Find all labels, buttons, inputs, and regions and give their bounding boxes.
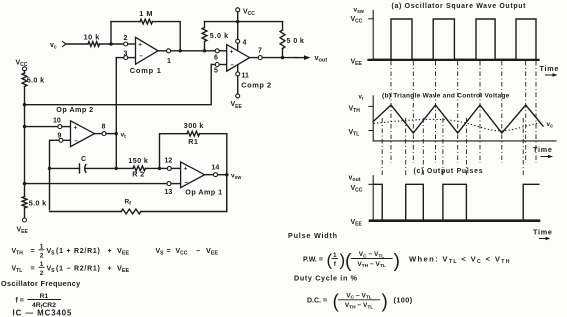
wire VCC top rail [205, 21, 283, 23]
plot b baseline [373, 140, 556, 142]
svg-text:6: 6 [214, 55, 218, 62]
pin 7 output Comp 2 [250, 57, 259, 59]
wire vc to R1ok [66, 43, 88, 45]
svg-text:5: 5 [214, 68, 218, 75]
waveform b triangle wave [373, 105, 543, 133]
svg-text:+: + [108, 248, 112, 255]
pin 9 [59, 138, 63, 142]
svg-text:10 k: 10 k [84, 33, 101, 42]
svg-text:9: 9 [58, 133, 62, 140]
wire junction up to 1M [110, 22, 112, 44]
node rail to pin10 [23, 125, 26, 128]
pin 1 output Comp 1 [158, 50, 167, 52]
svg-text:(: ( [345, 250, 352, 272]
power VEE terminal left rail [23, 218, 27, 222]
svg-text:Comp 2: Comp 2 [241, 81, 271, 90]
plot c y-axis [372, 176, 374, 221]
svg-text:Time: Time [533, 145, 553, 154]
node 1M feedback junction [179, 49, 182, 52]
svg-text:Time: Time [540, 64, 560, 73]
svg-text:1: 1 [333, 252, 337, 259]
svg-text:R1: R1 [40, 293, 49, 300]
plot a baseline [369, 59, 539, 61]
resistor 5.0k divider top [24, 71, 26, 73]
wire opamp1 out to vsw [218, 174, 227, 176]
node R1 bottom junction [158, 167, 161, 170]
svg-text:4: 4 [243, 40, 247, 47]
svg-text:=: = [31, 266, 35, 273]
wire C to R2 [85, 167, 133, 169]
svg-text:+: + [74, 125, 78, 132]
svg-text:300 k: 300 k [184, 121, 204, 130]
svg-text:f =: f = [16, 298, 24, 305]
svg-text:(1 + R2/R1): (1 + R2/R1) [56, 248, 101, 255]
waveform c output pulses [373, 184, 539, 220]
pin 5 [215, 63, 219, 67]
svg-text:Comp 1: Comp 1 [130, 66, 162, 75]
pin 8 output Op Amp 2 [95, 133, 102, 135]
wire Rf right vertical [226, 175, 228, 212]
wire rail to pin 10 [25, 126, 58, 128]
svg-text:12: 12 [165, 158, 173, 165]
wire 10k to pin2 [100, 43, 124, 45]
svg-text:5.0 k: 5.0 k [29, 199, 47, 208]
pin 11 [236, 72, 240, 76]
node vsw [225, 173, 228, 176]
svg-text:Pulse Width: Pulse Width [288, 231, 338, 240]
pin 3 [124, 56, 128, 60]
svg-text:2: 2 [40, 270, 44, 277]
svg-text:−: − [230, 62, 234, 69]
svg-text:R 2: R 2 [132, 170, 144, 179]
resistor 5.0k divider bottom [22, 197, 27, 209]
node C left junction [48, 167, 51, 170]
node C right junction [115, 167, 118, 170]
svg-text:2: 2 [40, 252, 44, 259]
svg-text:150 k: 150 k [128, 156, 148, 165]
wire R2 to pin12 [146, 167, 168, 169]
wire comp2 output line [262, 57, 296, 59]
node vc-pin2 junction [109, 42, 112, 45]
wire C left segment [50, 167, 80, 169]
pin 10 [58, 125, 62, 129]
svg-text:+: + [108, 266, 112, 273]
output arrow vout [296, 57, 308, 59]
node pullup junction [203, 49, 206, 52]
svg-text:−: − [184, 179, 188, 186]
svg-text:(c) Output Pulses: (c) Output Pulses [414, 168, 484, 175]
op-amp Op Amp 2 [71, 121, 95, 147]
svg-text:1: 1 [40, 243, 44, 250]
op-amp Op Amp 1 [181, 162, 205, 188]
svg-text:Time: Time [533, 228, 553, 237]
svg-text:1: 1 [40, 261, 44, 268]
svg-text:3: 3 [124, 51, 128, 58]
svg-text:1: 1 [167, 58, 171, 65]
svg-text:(: ( [333, 292, 340, 313]
svg-text:Op Amp 1: Op Amp 1 [185, 188, 222, 197]
wire pin3 vertical to vt and C [115, 58, 117, 169]
power VCC terminal [236, 8, 240, 12]
resistor 5.0k pull-up [204, 42, 206, 51]
pin 13 [167, 182, 171, 186]
pin 4 [237, 22, 239, 40]
power VEE terminal Comp2 [236, 94, 240, 98]
svg-text:2: 2 [124, 35, 128, 42]
comparator Comp 1 [136, 37, 159, 64]
svg-text:D.C. =: D.C. = [307, 298, 327, 305]
svg-text:(a) Oscillator Square Wave Out: (a) Oscillator Square Wave Output [392, 3, 527, 10]
svg-text:5 0 k: 5 0 k [287, 36, 305, 45]
wire 1M right segment down to node 1 [153, 22, 181, 49]
svg-text:=: = [167, 248, 171, 255]
wire opamp2 out to vt [106, 133, 116, 135]
svg-text:5.0 k: 5.0 k [210, 31, 229, 40]
svg-text:1 M: 1 M [139, 9, 153, 18]
svg-text:7: 7 [258, 48, 262, 55]
svg-text:(: ( [327, 251, 333, 270]
node rail to pin13 [23, 182, 26, 185]
svg-text:(1 − R2/R1): (1 − R2/R1) [56, 266, 101, 273]
plot c baseline [370, 219, 539, 222]
pin 2 [124, 42, 128, 46]
svg-text:5.0 k: 5.0 k [27, 76, 45, 85]
svg-text:13: 13 [165, 189, 173, 196]
svg-text:−: − [196, 248, 200, 255]
node vt [115, 132, 118, 135]
wire R1 loop left [160, 134, 188, 169]
svg-text:Oscillator Frequency: Oscillator Frequency [1, 279, 81, 288]
node VCC rail junction [236, 20, 239, 23]
svg-text:C: C [81, 156, 86, 163]
svg-text:10: 10 [53, 118, 61, 125]
pin 14 output Op Amp 1 [205, 174, 214, 176]
svg-text:11: 11 [242, 73, 250, 80]
svg-text:−: − [74, 138, 78, 145]
pin 12 [167, 166, 171, 170]
alignment dash lines a-b [390, 61, 392, 163]
svg-text:(b) Triangle Wave and Control: (b) Triangle Wave and Control Voltage [382, 93, 510, 100]
comparator Comp 2 [227, 45, 250, 72]
svg-text:): ) [382, 292, 388, 313]
svg-text:8: 8 [102, 124, 106, 131]
svg-text:): ) [394, 250, 401, 272]
capacitor C [79, 164, 81, 173]
wire left rail upper [24, 87, 26, 197]
wire 1M left segment [111, 21, 140, 23]
node rail ref to pin5 [23, 103, 26, 106]
svg-text:−: − [139, 53, 143, 60]
node output junction [281, 56, 284, 59]
resistor 10k [88, 42, 100, 47]
waveform b control voltage vc dotted [374, 119, 544, 130]
svg-text:vt: vt [359, 95, 364, 102]
svg-text:Duty Cycle in %: Duty Cycle in % [294, 274, 358, 283]
svg-text:+: + [138, 42, 142, 49]
wire reference line to pin5 [25, 65, 212, 105]
resistor 150k R2 [133, 166, 145, 171]
svg-text:14: 14 [212, 165, 220, 172]
wire pin11 to VEE [237, 76, 239, 94]
svg-text:Op Amp 2: Op Amp 2 [56, 105, 93, 114]
plot a y-axis [372, 11, 374, 60]
pin 6 [215, 49, 219, 53]
svg-text:P.W. =: P.W. = [303, 257, 323, 264]
svg-text:+: + [230, 49, 234, 56]
wire R1 loop right [200, 134, 227, 210]
resistor Rf [141, 211, 227, 213]
waveform a square wave [373, 19, 536, 59]
svg-text:R1: R1 [188, 137, 198, 146]
alignment dash lines b-c [381, 118, 383, 176]
plot b y-axis [372, 96, 374, 141]
svg-text:=: = [31, 248, 35, 255]
resistor 1M [140, 19, 152, 24]
resistor 300k R1 [187, 131, 199, 136]
resistor 5.0k output pull-up [282, 22, 284, 30]
svg-text:(100): (100) [394, 296, 413, 305]
wire comp1 out to comp2 in [171, 50, 215, 52]
svg-text:+: + [184, 166, 188, 173]
svg-text:IC — MC3405: IC — MC3405 [13, 309, 73, 317]
